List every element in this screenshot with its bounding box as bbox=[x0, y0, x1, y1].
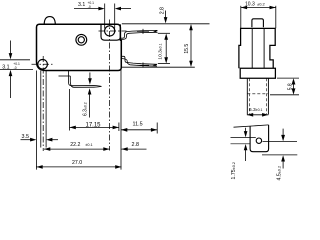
body left edge extension line bbox=[35, 71, 37, 170]
terminal front view: inner verticals bbox=[251, 28, 253, 68]
svg-text:2.8: 2.8 bbox=[160, 7, 166, 14]
svg-text:2.8: 2.8 bbox=[132, 142, 140, 148]
svg-text:±0.1: ±0.1 bbox=[85, 143, 92, 147]
blade 2 center dash bbox=[137, 64, 149, 66]
svg-text:22.2: 22.2 bbox=[70, 142, 80, 148]
svg-text:17.15: 17.15 bbox=[86, 122, 102, 128]
terminal front view: lower column bbox=[246, 78, 248, 114]
center hole outer bbox=[76, 34, 87, 45]
extension line at blade1 bottom bbox=[158, 32, 170, 34]
dim text 3.1 +0.1/-0 left bbox=[2, 62, 20, 71]
terminal front view: hidden lines bbox=[248, 78, 250, 114]
svg-text:3.5: 3.5 bbox=[22, 134, 30, 140]
svg-text:-0: -0 bbox=[88, 5, 91, 9]
tab side view: hole bottom tangent extension bbox=[231, 143, 251, 145]
plunger button bbox=[44, 17, 55, 25]
dimension 6.3 lever: down arrow bbox=[89, 73, 91, 80]
lever terminal step bbox=[59, 75, 71, 77]
svg-text:11.5: 11.5 bbox=[133, 121, 143, 127]
svg-text:±0.2: ±0.2 bbox=[257, 2, 266, 7]
short extension at 17.15 right bbox=[118, 123, 120, 132]
dimension 17.15 line bbox=[70, 126, 119, 128]
blade 2 forked end bbox=[154, 64, 157, 66]
dimension 3.1 hole dia: arrows bbox=[74, 8, 99, 10]
body right edge extension line bbox=[120, 41, 122, 170]
vertical centerline through ear hole bbox=[109, 20, 111, 151]
dimension 11.5 line bbox=[121, 129, 157, 131]
left dimension 3.1: reference lines bbox=[0, 59, 30, 61]
tab side view: centerline right of hole bbox=[263, 141, 298, 143]
svg-text:27.0: 27.0 bbox=[72, 160, 82, 166]
terminal blade 2 upper line bbox=[121, 56, 157, 64]
extension line below lever bbox=[69, 89, 71, 131]
tab side view: bottom extension line bbox=[262, 154, 297, 156]
ear hole bbox=[105, 26, 115, 36]
left dimension 3.1: arrows bbox=[10, 41, 12, 55]
dimension 2.8 bottom: left arrow tail bbox=[121, 148, 146, 150]
ear hole horizontal centerline bbox=[99, 30, 127, 32]
svg-text:3.1: 3.1 bbox=[78, 2, 85, 8]
dimension 3.5: arrow and tails bbox=[21, 139, 32, 141]
mounting ear top-right bbox=[101, 24, 120, 40]
tab side view: top slanted edge bbox=[234, 125, 269, 127]
svg-text:-0: -0 bbox=[14, 66, 17, 70]
svg-text:3.1: 3.1 bbox=[2, 65, 9, 71]
top extension line from body top edge bbox=[122, 23, 210, 25]
terminal blade 1 upper line bbox=[121, 30, 157, 38]
dimension 6.3 lever: up arrow and tail bbox=[89, 94, 91, 118]
vertical centerline through bottom-left hole bbox=[42, 56, 44, 151]
svg-text:10.3: 10.3 bbox=[245, 2, 255, 8]
terminal front view: top tab bbox=[252, 19, 264, 28]
extension line at blade2 top bbox=[158, 62, 170, 64]
dimension 22.2 line bbox=[44, 148, 110, 150]
tab side view: outline bbox=[250, 125, 269, 152]
blade 2 tick mark bbox=[142, 63, 144, 68]
bottom terminal left side line bbox=[40, 71, 42, 148]
blade 1 tick mark bbox=[142, 29, 144, 34]
tab side view: hole bbox=[256, 138, 261, 143]
dimension 2.8 top: down arrow bbox=[165, 11, 167, 19]
blade 1 forked end bbox=[154, 30, 157, 32]
terminal front view: dim 10.3 extension lines bbox=[240, 6, 242, 28]
bottom terminal right side line bbox=[45, 71, 47, 148]
blade 1 center dash bbox=[137, 31, 149, 33]
dim 1.75: arrows bbox=[245, 128, 247, 132]
dim 4.5: arrows bbox=[282, 129, 284, 136]
svg-text:15.5: 15.5 bbox=[184, 44, 190, 54]
terminal blade 2 lower line bbox=[121, 59, 157, 67]
lever terminal inner line bbox=[70, 76, 101, 87]
tab side view: hole top tangent extension bbox=[231, 137, 256, 139]
dim text 3.1 +0.1/-0 top bbox=[78, 1, 94, 9]
dimension 15.5 line bbox=[190, 26, 192, 65]
dim 5.8: line and arrows bbox=[293, 82, 295, 91]
extension line at blades right end bbox=[156, 123, 158, 134]
lever terminal outer line bbox=[69, 71, 102, 87]
bottom-left hole horizontal centerline bbox=[32, 63, 54, 65]
terminal blade 1 lower line bbox=[121, 32, 157, 39]
terminal front view: dim 10.3 line bbox=[241, 7, 276, 9]
long extension line below blades bbox=[121, 66, 195, 68]
terminal front view: base bbox=[240, 68, 275, 78]
dimension 27.0 line bbox=[36, 166, 121, 168]
svg-text:5.8: 5.8 bbox=[288, 83, 294, 90]
dim 5.8: extension lines bbox=[277, 77, 299, 79]
terminal front view: upper block and middle section bbox=[239, 28, 275, 68]
bottom-left hole bbox=[38, 60, 48, 70]
dimension 3.1 hole dia: extension lines bbox=[104, 4, 106, 29]
switch body outline bbox=[37, 24, 122, 70]
center hole inner bbox=[78, 37, 84, 43]
dim 6.3 bottom of front view bbox=[247, 114, 269, 116]
dimension 10.3 line with shared up arrow bbox=[165, 38, 167, 59]
